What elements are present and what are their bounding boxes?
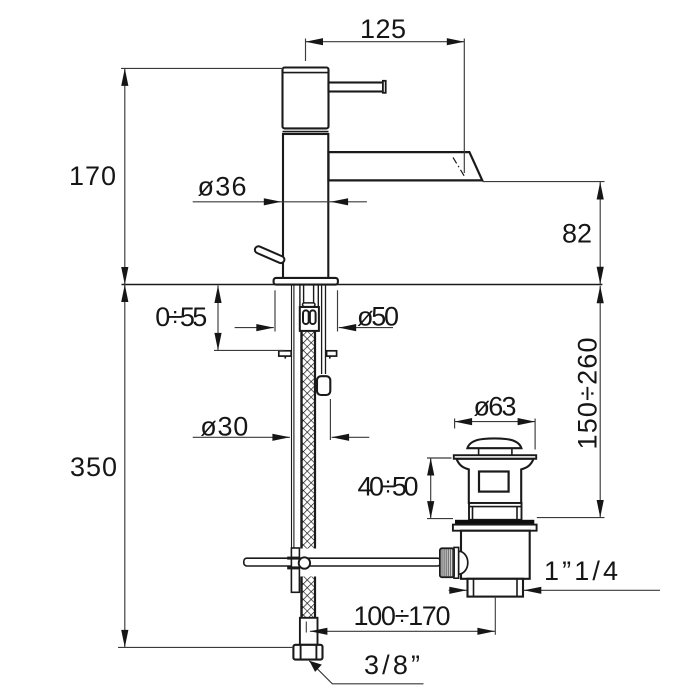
svg-text:ø63: ø63 — [474, 392, 517, 422]
svg-text:150÷260: 150÷260 — [573, 338, 603, 450]
svg-text:125: 125 — [360, 14, 406, 44]
svg-text:100÷170: 100÷170 — [354, 601, 451, 631]
svg-text:350: 350 — [70, 452, 117, 482]
svg-text:40÷50: 40÷50 — [358, 472, 419, 502]
svg-text:0÷55: 0÷55 — [155, 302, 207, 332]
svg-text:3/8”: 3/8” — [364, 650, 420, 680]
svg-text:ø36: ø36 — [198, 172, 247, 202]
svg-text:ø50: ø50 — [357, 302, 399, 332]
svg-text:170: 170 — [69, 161, 116, 191]
svg-text:1”1/4: 1”1/4 — [544, 556, 618, 586]
svg-text:ø30: ø30 — [200, 412, 248, 442]
svg-text:82: 82 — [562, 218, 592, 248]
